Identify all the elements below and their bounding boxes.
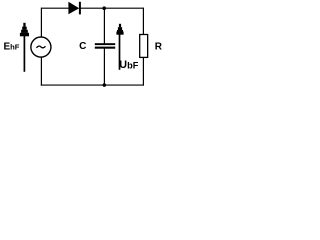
svg-text:bF: bF [127,60,139,70]
svg-text:R: R [155,41,163,52]
capacitor C bottom plate [95,47,115,49]
AC source G1 circle [31,37,51,57]
junction node dot top [102,6,106,10]
wire left branch lower (source bottom to bottom wire) [40,57,42,86]
resistor R body [140,35,148,58]
arrow Ubf shaft [119,33,121,70]
svg-text:C: C [79,41,86,52]
wire right branch upper (top wire to resistor) [142,8,144,35]
diode VD1 triangle [68,2,79,14]
diode VD1 cathode bar [79,2,81,15]
wire bottom [41,84,144,86]
arrow Ehf head [20,23,29,37]
svg-text:hF: hF [10,42,20,51]
capacitor C top plate [95,43,115,45]
arrow Ubf head [116,24,123,35]
wire middle branch upper (top node to capacitor) [103,8,105,44]
wire left branch upper (source top to top wire) [40,8,42,38]
wire top right (diode cathode to resistor branch) [81,7,144,9]
wire middle branch lower (capacitor to bottom node) [103,48,105,85]
wire right branch lower (resistor to bottom wire) [142,57,144,85]
svg-text:U: U [119,59,127,71]
wire top (node between source, diode anode) [41,7,69,9]
AC source sine symbol [36,46,45,48]
arrow Ehf shaft [23,35,25,72]
junction node dot bottom [103,83,107,87]
